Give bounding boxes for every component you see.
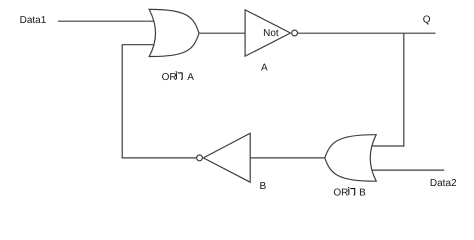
wire OR B output to NOT B input xyxy=(250,157,325,159)
NOT gate B (inverter, mirrored left-pointing) xyxy=(197,133,251,182)
svg-text:B: B xyxy=(359,188,366,199)
wire to OR B top input xyxy=(371,145,404,147)
svg-text:Data2: Data2 xyxy=(430,178,457,189)
wire OR A output to NOT A input xyxy=(199,32,246,34)
wire NOT A output to Q xyxy=(298,32,436,34)
svg-text:B: B xyxy=(260,181,267,192)
label OR门 B xyxy=(333,187,366,198)
svg-text:OR: OR xyxy=(333,188,348,199)
label OR门 A xyxy=(162,71,195,83)
NOT gate A (inverter) xyxy=(245,10,297,56)
svg-text:Not: Not xyxy=(263,28,279,39)
OR gate B (OR门 B, mirrored left-pointing) xyxy=(325,135,376,182)
svg-text:Data1: Data1 xyxy=(20,15,47,26)
svg-text:A: A xyxy=(187,72,194,83)
svg-text:OR: OR xyxy=(162,72,177,83)
svg-text:Q: Q xyxy=(423,15,431,26)
OR gate A (OR门 A) xyxy=(149,9,199,56)
wire Q branch down xyxy=(403,33,405,146)
svg-text:A: A xyxy=(261,63,268,74)
wire Data2 to OR B bottom input xyxy=(370,169,444,171)
wire feedback: NOT B output left, up, into OR A lower input xyxy=(122,45,196,158)
wire Data1 to OR A top input xyxy=(58,20,156,22)
